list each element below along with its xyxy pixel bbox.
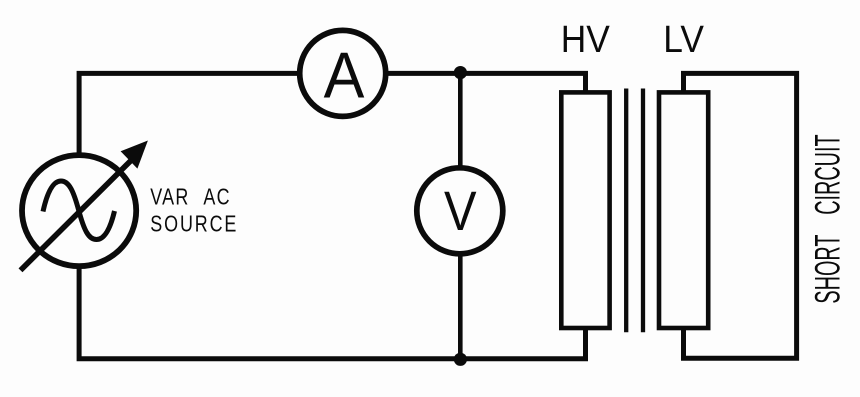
transformer T1 LV winding [659, 92, 708, 328]
wire bottom from source to HV winding [79, 262, 585, 359]
transformer T1 core line left [624, 89, 628, 333]
svg-text:SHORT CIRCUIT: SHORT CIRCUIT [809, 134, 848, 303]
svg-text:SOURCE: SOURCE [150, 212, 238, 238]
wire short-circuit loop on LV winding [684, 73, 797, 358]
svg-text:LV: LV [663, 18, 704, 60]
svg-text:VAR AC: VAR AC [150, 185, 230, 211]
source V1 circle [22, 155, 136, 266]
transformer T1 HV winding [561, 92, 609, 328]
svg-text:A: A [324, 40, 365, 112]
ammeter A1 circle [300, 30, 386, 116]
node junction dot bottom [454, 353, 467, 366]
source V1 arrow head [121, 141, 148, 169]
svg-text:HV: HV [561, 18, 611, 60]
transformer T1 core line right [641, 89, 645, 333]
source V1 variability arrow shaft [21, 159, 134, 271]
voltmeter V2 circle [417, 168, 503, 254]
svg-text:V: V [444, 181, 477, 243]
wire voltmeter branch [458, 73, 463, 358]
node junction dot top [454, 66, 467, 79]
source V1 sine wave [43, 181, 115, 240]
wire top from source via ammeter to HV winding [79, 73, 585, 160]
